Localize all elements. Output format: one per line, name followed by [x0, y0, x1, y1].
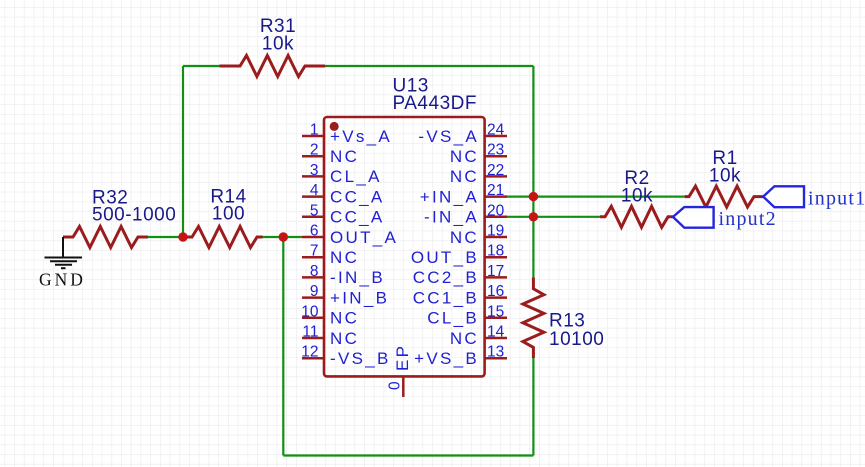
svg-text:+IN_B: +IN_B: [330, 288, 389, 307]
resistor R14 (100): [187, 187, 263, 248]
svg-text:4: 4: [310, 182, 319, 199]
U13 pin 8 (-IN_B): [302, 263, 385, 287]
svg-text:NC: NC: [330, 309, 359, 328]
U13 pin 11 (NC): [302, 324, 359, 348]
svg-text:6: 6: [310, 223, 319, 240]
U13 pin 15 (CL_B): [427, 303, 507, 327]
svg-text:24: 24: [487, 122, 505, 139]
svg-text:10100: 10100: [549, 329, 604, 350]
svg-text:15: 15: [487, 303, 504, 320]
svg-text:14: 14: [487, 324, 505, 341]
U13 pin 9 (+IN_B): [302, 283, 389, 307]
svg-text:input1: input1: [808, 188, 865, 210]
svg-text:CC2_B: CC2_B: [413, 268, 479, 287]
U13 pin 1 (+Vs_A): [302, 122, 392, 146]
svg-text:11: 11: [302, 324, 318, 341]
U13 pin 19 (NC): [450, 223, 507, 247]
U13 pin 18 (OUT_B): [411, 243, 507, 267]
svg-text:CC_A: CC_A: [330, 187, 385, 206]
svg-text:-VS_B: -VS_B: [330, 349, 391, 368]
U13 pin 2 (NC): [302, 142, 359, 166]
resistor R31 (10k): [220, 16, 326, 77]
svg-text:22: 22: [487, 162, 504, 179]
svg-text:-VS_A: -VS_A: [418, 127, 479, 146]
svg-text:2: 2: [310, 142, 319, 159]
svg-text:19: 19: [487, 223, 504, 240]
svg-text:NC: NC: [450, 228, 479, 247]
svg-text:+VS_B: +VS_B: [414, 349, 479, 368]
port input1: [763, 186, 865, 209]
svg-text:10k: 10k: [621, 186, 653, 207]
svg-text:CL_A: CL_A: [330, 167, 382, 186]
svg-text:-IN_A: -IN_A: [424, 208, 479, 227]
svg-text:0: 0: [387, 381, 404, 390]
svg-text:CC_A: CC_A: [330, 208, 385, 227]
U13 pin 1 marker dot: [330, 122, 339, 131]
U13 pin 20 (-IN_A): [424, 202, 507, 226]
U13 pin 16 (CC1_B): [413, 283, 507, 307]
U13 pin 22 (NC): [450, 162, 507, 186]
svg-text:+IN_A: +IN_A: [420, 187, 479, 206]
svg-text:NC: NC: [330, 248, 359, 267]
port input2: [673, 207, 777, 230]
wire: bottom horizontal loop: [283, 454, 533, 456]
svg-text:3: 3: [310, 162, 319, 179]
svg-text:NC: NC: [450, 167, 479, 186]
svg-text:OUT_B: OUT_B: [411, 248, 479, 267]
svg-text:7: 7: [310, 243, 319, 260]
U13 pin 6 (OUT_A): [302, 223, 398, 247]
junction: R14/OUT_A/bottom loop: [279, 232, 288, 241]
svg-text:13: 13: [487, 344, 504, 361]
svg-text:500-1000: 500-1000: [92, 205, 176, 226]
svg-text:EP: EP: [393, 344, 412, 371]
U13 pin 24 (-VS_A): [418, 122, 507, 146]
svg-text:-IN_B: -IN_B: [330, 268, 385, 287]
op-amp IC U13 PA443DF body: [324, 117, 485, 376]
svg-text:10k: 10k: [262, 34, 294, 55]
svg-text:PA443DF: PA443DF: [393, 93, 477, 114]
wire: top horizontal, left vertical to R31: [183, 65, 221, 67]
svg-text:21: 21: [487, 182, 504, 199]
junction: +IN_A net: [529, 192, 538, 201]
svg-text:100: 100: [212, 204, 245, 225]
svg-text:NC: NC: [330, 147, 359, 166]
U13 pin 4 (CC_A): [302, 182, 385, 206]
U13 pin 10 (NC): [301, 303, 359, 327]
svg-text:18: 18: [487, 243, 504, 260]
svg-text:10: 10: [301, 303, 319, 320]
resistor R13 (10100): [523, 278, 604, 359]
wire: top horizontal, R31 to right vertical: [324, 65, 533, 67]
wire: pin 20 -IN_A to R2: [507, 216, 601, 218]
wire: right vertical from R13 to bottom loop: [532, 357, 534, 456]
U13 pin 17 (CC2_B): [413, 263, 507, 287]
resistor R32 (500-1000): [63, 188, 176, 248]
svg-text:20: 20: [487, 202, 505, 219]
svg-text:NC: NC: [450, 147, 479, 166]
resistor R2 (10k): [600, 168, 673, 227]
svg-text:23: 23: [487, 142, 504, 159]
U13 pin 0 (EP thermal pad): [387, 344, 413, 397]
U13 pin 7 (NC): [302, 243, 359, 267]
svg-text:5: 5: [310, 202, 319, 219]
svg-text:9: 9: [310, 283, 319, 300]
wire: vertical from OUT_A junction down to bottom loop: [282, 237, 284, 456]
wire: right vertical from top to R13: [532, 66, 534, 279]
U13 pin 23 (NC): [450, 142, 507, 166]
svg-text:OUT_A: OUT_A: [330, 228, 398, 247]
ground GND: [45, 237, 83, 268]
wire: pin 21 +IN_A to R1: [507, 196, 686, 198]
svg-text:NC: NC: [450, 329, 479, 348]
svg-text:10k: 10k: [709, 166, 741, 187]
wire: R14 to pin 6 OUT_A segment: [261, 236, 302, 238]
svg-text:1: 1: [310, 122, 319, 139]
junction: -IN_A net: [529, 212, 538, 221]
svg-text:+Vs_A: +Vs_A: [330, 127, 392, 146]
svg-text:NC: NC: [330, 329, 359, 348]
svg-text:8: 8: [310, 263, 319, 280]
U13 pin 21 (+IN_A): [420, 182, 507, 206]
svg-text:input2: input2: [719, 208, 777, 230]
U13 pin 5 (CC_A): [302, 202, 385, 226]
U13 pin 13 (+VS_B): [414, 344, 507, 368]
junction: R32/R14/left vertical: [178, 232, 187, 241]
U13 pin 12 (-VS_B): [301, 344, 390, 368]
U13 pin 14 (NC): [450, 324, 507, 348]
wire: left vertical from top wire down to R32/R14 junction: [182, 66, 184, 237]
svg-text:12: 12: [301, 344, 318, 361]
svg-text:CC1_B: CC1_B: [413, 288, 479, 307]
wire: R32 to R14 segment: [146, 236, 188, 238]
resistor R1 (10k): [685, 148, 763, 207]
svg-text:GND: GND: [39, 270, 86, 290]
svg-text:17: 17: [487, 263, 504, 280]
U13 pin 3 (CL_A): [302, 162, 382, 186]
svg-text:16: 16: [487, 283, 504, 300]
svg-text:CL_B: CL_B: [427, 309, 479, 328]
